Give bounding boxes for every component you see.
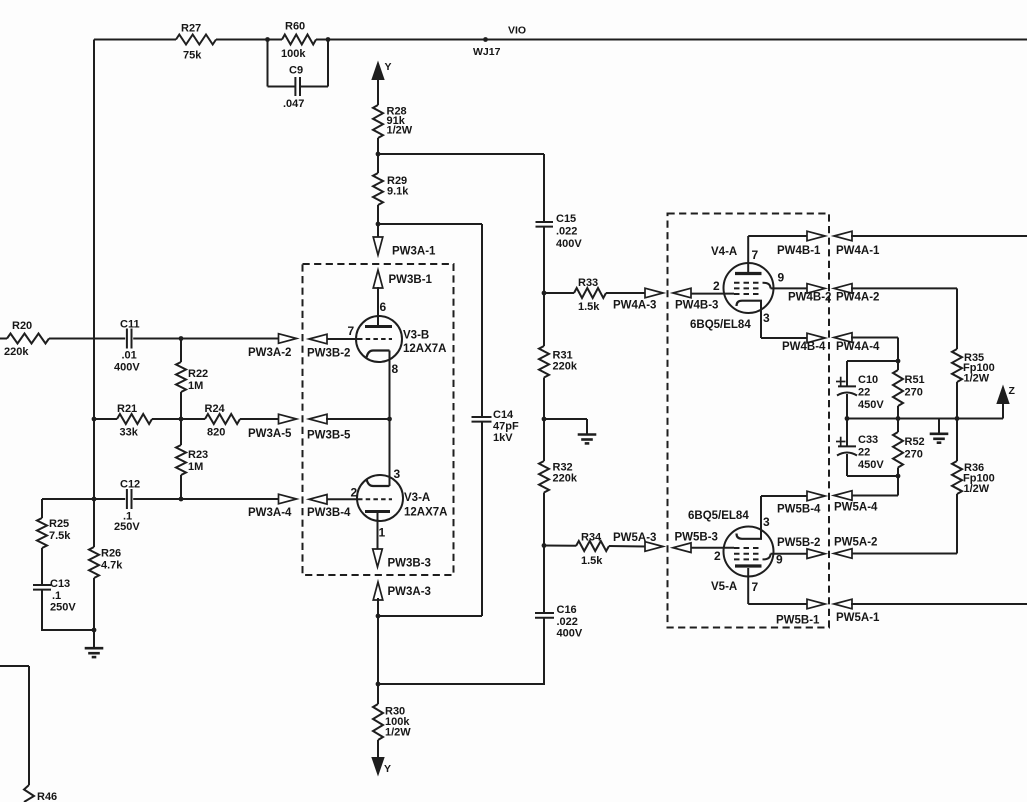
resistor R35 — [952, 349, 962, 382]
svg-text:R46: R46 — [37, 791, 57, 802]
wire V3-B cathode lead — [389, 351, 391, 420]
wire R32 to R34 junction — [543, 493, 545, 547]
resistor R32 — [539, 461, 549, 493]
wire R22 to R21 row — [180, 392, 182, 419]
wire C11 to PW3A-2 arrow — [133, 338, 280, 340]
tube V5-A circle — [724, 527, 774, 577]
svg-text:PW4A-2: PW4A-2 — [836, 292, 879, 304]
wire to PW5A-4 — [897, 476, 899, 496]
svg-text:1/2W: 1/2W — [385, 727, 411, 739]
svg-text:VIO: VIO — [508, 25, 526, 37]
tube V3-B cathode — [367, 351, 390, 358]
node cathode junction — [387, 417, 392, 422]
wire junction to C15 column — [378, 153, 544, 155]
node R34 junction — [542, 543, 547, 548]
svg-text:PW5A-1: PW5A-1 — [836, 612, 880, 624]
svg-text:75k: 75k — [183, 50, 202, 62]
wire to C16 — [543, 546, 545, 614]
wire left rail vertical — [93, 40, 95, 548]
svg-text:PW3A-2: PW3A-2 — [248, 347, 291, 359]
resistor R46 — [24, 785, 34, 802]
tube V3-A circle — [357, 475, 403, 521]
node R28 R29 junction — [376, 152, 381, 157]
resistor R51 — [897, 361, 899, 370]
wire C15 column top — [543, 154, 545, 222]
svg-text:PW3B-5: PW3B-5 — [307, 430, 351, 442]
svg-text:820: 820 — [207, 427, 225, 439]
connector PW5A-3 — [645, 542, 663, 552]
svg-text:PW4A-4: PW4A-4 — [836, 341, 880, 353]
svg-text:1M: 1M — [188, 461, 203, 473]
node ground junction — [542, 417, 547, 422]
svg-text:1.5k: 1.5k — [581, 555, 603, 567]
connector PW3A-3 — [373, 582, 383, 600]
svg-text:1/2W: 1/2W — [387, 125, 413, 137]
svg-text:PW5B-1: PW5B-1 — [776, 615, 820, 627]
wire V4-A cathode lead — [760, 301, 762, 338]
wire to PW3A-1 arrow — [377, 224, 379, 241]
svg-text:R27: R27 — [181, 23, 201, 35]
svg-text:220k: 220k — [4, 346, 29, 358]
svg-text:PW4A-1: PW4A-1 — [836, 245, 880, 257]
resistor R31 — [539, 346, 549, 378]
connector PW3B-4 — [309, 495, 327, 505]
resistor R21 — [117, 414, 152, 424]
resistor R29 — [373, 173, 383, 205]
svg-text:7: 7 — [348, 324, 355, 338]
wire R24 to PW3A-5 arrow — [240, 418, 280, 420]
wire V3-A grid lead — [326, 498, 358, 500]
wire C10 bottom — [846, 394, 848, 419]
svg-text:220k: 220k — [553, 473, 578, 485]
wire R34 to PW5A-3 — [609, 545, 647, 548]
connector PW3A-4 — [279, 494, 297, 504]
svg-text:.01: .01 — [122, 350, 137, 362]
wire V5-A cathode lead — [760, 496, 762, 539]
net Y bottom arrow — [377, 740, 379, 758]
svg-text:1M: 1M — [188, 380, 203, 392]
svg-text:PW5B-3: PW5B-3 — [675, 532, 718, 544]
net Z arrow — [997, 386, 1009, 404]
wire left rail to ground — [93, 578, 95, 631]
node R29 C14 junction — [376, 222, 381, 227]
resistor R26 — [89, 547, 99, 578]
tube V4-A circle — [724, 263, 774, 313]
resistor R24 — [205, 414, 240, 424]
svg-text:V3-A: V3-A — [404, 492, 430, 504]
svg-text:R52: R52 — [905, 436, 925, 448]
wire ground stub — [544, 418, 587, 420]
wire V5-A plate lead — [747, 568, 749, 604]
svg-text:2: 2 — [713, 279, 720, 293]
node R60 left junction — [265, 37, 270, 42]
svg-text:R21: R21 — [117, 403, 137, 415]
wire R31 to gnd junction — [543, 378, 545, 420]
node mid row junction R35 — [955, 416, 960, 421]
tube V5-A cathode — [737, 534, 763, 539]
wire mid row — [847, 418, 1003, 420]
wire C15 to R33 junction — [543, 227, 545, 293]
wire V4-A plate lead — [747, 236, 749, 272]
svg-text:400V: 400V — [114, 362, 140, 374]
wire C12 to PW3A-4 arrow — [133, 498, 280, 500]
svg-text:450V: 450V — [858, 459, 884, 471]
connector PW3B-3 — [373, 549, 383, 567]
svg-text:3: 3 — [763, 311, 770, 325]
capacitor C11 — [126, 329, 128, 349]
connector PW5A-1 — [834, 599, 852, 609]
wire C16 bottom lead — [543, 618, 545, 685]
tube V3-A plate — [365, 510, 390, 513]
svg-text:PW5B-4: PW5B-4 — [777, 504, 821, 516]
svg-text:PW3B-3: PW3B-3 — [388, 558, 431, 570]
ground center — [578, 433, 597, 436]
node R23 C12 junction — [179, 497, 184, 502]
svg-text:R51: R51 — [905, 374, 925, 386]
svg-text:6BQ5/EL84: 6BQ5/EL84 — [688, 510, 749, 522]
node C10 R51 top junction — [896, 359, 901, 364]
connector PW3B-1 — [373, 270, 383, 288]
wire PW4A-4 to C10 branch — [851, 337, 898, 339]
wire center column down — [377, 616, 379, 684]
svg-text:3: 3 — [763, 515, 770, 529]
resistor R28 — [373, 105, 383, 138]
node R30 junction — [376, 682, 381, 687]
svg-text:450V: 450V — [858, 399, 884, 411]
svg-text:C12: C12 — [120, 479, 140, 491]
svg-text:PW3B-2: PW3B-2 — [307, 348, 350, 360]
node left rail R21 junction — [92, 417, 97, 422]
wire R29 top lead — [377, 154, 379, 173]
wire junction to C14 column — [378, 223, 482, 225]
svg-text:9.1k: 9.1k — [387, 186, 409, 198]
svg-text:C9: C9 — [289, 65, 303, 77]
svg-text:7: 7 — [752, 248, 759, 262]
wire junction to C14 bottom — [378, 615, 482, 617]
svg-text:.1: .1 — [52, 590, 61, 602]
node mid row junction left — [845, 416, 850, 421]
resistor R23 — [176, 445, 186, 475]
svg-text:PW3B-1: PW3B-1 — [389, 274, 433, 286]
svg-text:220k: 220k — [553, 361, 578, 373]
tube V3-A grid — [358, 498, 392, 500]
svg-text:6: 6 — [380, 300, 387, 314]
svg-text:12AX7A: 12AX7A — [403, 343, 446, 355]
resistor R33 — [574, 288, 606, 298]
capacitor C9 — [267, 40, 269, 87]
wire bottom row — [847, 475, 898, 477]
svg-text:12AX7A: 12AX7A — [404, 507, 447, 519]
wire R25 to C13 — [41, 548, 43, 585]
connector PW4B-4 — [807, 333, 825, 343]
svg-text:R26: R26 — [101, 548, 121, 560]
wire V5-A grid9 hook — [763, 554, 771, 560]
svg-text:PW3A-5: PW3A-5 — [248, 428, 292, 440]
svg-text:Z: Z — [1009, 385, 1016, 397]
svg-text:47pF: 47pF — [493, 421, 519, 433]
tube V3-B grid — [358, 338, 392, 340]
node R60 right junction — [326, 37, 331, 42]
svg-text:PW5A-2: PW5A-2 — [834, 537, 877, 549]
svg-text:1.5k: 1.5k — [578, 301, 600, 313]
wire R25 top lead — [41, 499, 43, 518]
wire R36 to PW5A-2 — [956, 494, 958, 554]
wire top rail left segment — [94, 39, 176, 41]
svg-text:100k: 100k — [281, 48, 306, 60]
net Y top arrow — [372, 62, 384, 80]
wire R22 top lead — [180, 339, 182, 363]
svg-text:PW4B-1: PW4B-1 — [777, 245, 821, 257]
svg-text:PW3A-4: PW3A-4 — [248, 507, 292, 519]
svg-text:PW5A-3: PW5A-3 — [613, 532, 656, 544]
ground left — [93, 630, 95, 648]
svg-text:R20: R20 — [12, 320, 32, 332]
capacitor C16 — [535, 612, 554, 614]
svg-text:Y: Y — [385, 61, 392, 73]
connector PW4A-4 — [834, 333, 852, 343]
wire top to C10 — [847, 360, 898, 362]
svg-text:250V: 250V — [114, 521, 140, 533]
wire R46 branch — [0, 665, 29, 667]
svg-text:1/2W: 1/2W — [964, 483, 990, 495]
node left rail C12 junction — [92, 497, 97, 502]
wire V4-A grid9 hook — [763, 283, 771, 289]
resistor R30 — [377, 684, 379, 704]
svg-text:PW4B-3: PW4B-3 — [675, 300, 718, 312]
wire C13 to bottom — [41, 590, 43, 631]
enclosure V4 V5 dashed box — [668, 214, 830, 628]
wire R33 lead — [544, 292, 574, 294]
wire V4-A grid2 lead — [691, 293, 735, 295]
svg-text:.022: .022 — [556, 226, 577, 238]
resistor R20 — [7, 334, 49, 344]
tube V5-A grids — [734, 547, 762, 549]
wire R21 lead — [94, 418, 117, 420]
svg-text:PW4B-2: PW4B-2 — [788, 292, 831, 304]
wire R20 to C11 — [49, 338, 125, 340]
svg-text:3: 3 — [394, 467, 401, 481]
node bottom junction — [896, 474, 901, 479]
svg-text:C14: C14 — [493, 409, 514, 421]
node C14 bottom junction — [376, 614, 381, 619]
svg-text:PW3A-3: PW3A-3 — [388, 586, 431, 598]
resistor R34 — [576, 541, 609, 551]
svg-text:C16: C16 — [557, 604, 577, 616]
svg-text:C10: C10 — [858, 374, 878, 386]
svg-text:4.7k: 4.7k — [101, 560, 123, 572]
svg-text:.022: .022 — [557, 616, 578, 628]
wire R29 to junction — [377, 205, 379, 224]
wire C14 bottom lead — [481, 422, 483, 616]
resistor R52 — [897, 419, 899, 433]
tube V3-B circle — [356, 316, 402, 362]
svg-text:1kV: 1kV — [493, 432, 513, 444]
resistor R27 — [176, 35, 216, 45]
wire R28 to junction — [377, 138, 379, 155]
connector PW3B-5 — [309, 414, 327, 424]
svg-text:.047: .047 — [283, 98, 304, 110]
ground right — [938, 419, 940, 434]
svg-text:33k: 33k — [120, 427, 139, 439]
wire R33 to PW4A-3 — [606, 292, 647, 294]
svg-text:PW5B-2: PW5B-2 — [777, 537, 820, 549]
svg-text:400V: 400V — [557, 628, 583, 640]
connector PW3B-2 — [309, 334, 327, 344]
node mid row junction R51 — [896, 416, 901, 421]
resistor R60 — [282, 35, 316, 45]
wire C14 top lead — [481, 224, 483, 417]
wire PW5A-1 to edge — [851, 603, 1027, 605]
tube V4-A plate — [735, 272, 762, 275]
svg-text:270: 270 — [905, 387, 923, 399]
connector PW3A-1 — [373, 237, 383, 255]
node WJ17 — [483, 37, 488, 42]
connector PW5A-2 — [834, 549, 852, 559]
resistor R25 — [37, 518, 47, 548]
svg-text:R22: R22 — [188, 368, 208, 380]
wire PW3B-5 to cathode column — [326, 418, 390, 420]
svg-text:R34: R34 — [581, 532, 602, 544]
svg-text:9: 9 — [778, 271, 785, 285]
wire V3-A plate lead — [377, 513, 379, 551]
wire V3-B grid lead — [326, 338, 358, 340]
tube V3-A cathode — [367, 479, 390, 486]
capacitor C10 — [838, 385, 856, 387]
wire R23 to C12 row — [180, 475, 182, 499]
svg-text:C11: C11 — [120, 319, 140, 331]
wire R23 top lead — [180, 419, 182, 445]
tube V5-A plate — [735, 564, 762, 567]
svg-text:400V: 400V — [556, 238, 582, 250]
svg-text:PW4A-3: PW4A-3 — [613, 300, 656, 312]
wire R21 to R24 — [152, 418, 205, 420]
svg-text:PW5A-4: PW5A-4 — [834, 502, 878, 514]
svg-text:R33: R33 — [578, 277, 598, 289]
svg-text:1/2W: 1/2W — [964, 373, 990, 385]
wire R35 to junction — [956, 382, 958, 419]
connector PW4A-2 — [834, 284, 852, 294]
wire PW3A-3 to junction — [377, 598, 379, 616]
capacitor C15 — [536, 221, 554, 223]
svg-text:Y: Y — [384, 763, 391, 775]
svg-text:7.5k: 7.5k — [49, 530, 71, 542]
wire PW3B-1 to V3-B plate — [377, 287, 379, 327]
svg-text:270: 270 — [905, 449, 923, 461]
wire R34 lead — [544, 545, 576, 547]
node R21 R24 junction — [179, 417, 184, 422]
svg-text:R23: R23 — [188, 449, 208, 461]
connector PW3A-2 — [279, 334, 297, 344]
wire PW4A-1 to edge — [851, 235, 1027, 237]
connector PW5B-1 — [807, 599, 825, 609]
tube V4-A cathode — [737, 301, 763, 306]
svg-text:22: 22 — [858, 387, 870, 399]
capacitor C13 — [33, 584, 51, 586]
svg-text:6BQ5/EL84: 6BQ5/EL84 — [690, 319, 751, 331]
wire top rail right segment — [316, 39, 1027, 41]
wire V5-A grid2 lead — [691, 547, 735, 549]
wire cathode column down — [389, 419, 391, 486]
svg-text:C15: C15 — [556, 213, 576, 225]
capacitor C14 — [472, 416, 492, 418]
svg-text:V4-A: V4-A — [711, 246, 737, 258]
wire R25 branch to C12 — [42, 498, 125, 500]
connector PW5B-3 — [673, 543, 691, 553]
svg-text:WJ17: WJ17 — [473, 46, 501, 58]
connector PW5B-2 — [807, 549, 825, 559]
svg-text:7: 7 — [752, 580, 759, 594]
tube V4-A grids — [734, 282, 763, 284]
tube V3-B plate — [365, 325, 392, 328]
connector PW4B-1 — [807, 231, 825, 241]
wire junction to C16 bottom — [378, 683, 544, 685]
resistor R22 — [176, 362, 186, 392]
svg-text:250V: 250V — [50, 602, 76, 614]
resistor R36 — [956, 419, 958, 462]
svg-text:C13: C13 — [50, 578, 70, 590]
enclosure V3 dashed box — [303, 264, 454, 575]
node R33 junction — [542, 291, 547, 296]
svg-text:PW3B-4: PW3B-4 — [307, 507, 351, 519]
capacitor C33 — [846, 419, 848, 447]
connector PW5A-4 — [834, 491, 852, 501]
svg-text:PW3A-1: PW3A-1 — [392, 246, 436, 258]
svg-text:2: 2 — [351, 486, 358, 500]
connector PW4A-1 — [834, 231, 852, 241]
svg-text:V3-B: V3-B — [403, 330, 429, 342]
wire R27 to R60 — [216, 39, 282, 41]
svg-text:2: 2 — [714, 549, 721, 563]
svg-text:R60: R60 — [285, 21, 305, 33]
wire R20 lead-in — [0, 338, 7, 340]
connector PW4A-3 — [645, 288, 663, 298]
svg-text:22: 22 — [858, 447, 870, 459]
capacitor C12 — [126, 489, 128, 509]
connector PW5B-4 — [807, 491, 825, 501]
wire PW4A-2 to R35 — [851, 287, 957, 289]
svg-text:R25: R25 — [49, 518, 69, 530]
connector PW3A-5 — [279, 414, 297, 424]
wire R31 top lead — [543, 293, 545, 346]
svg-text:C33: C33 — [858, 434, 878, 446]
node R26 bottom junction — [92, 628, 97, 633]
wire R32 top lead — [543, 419, 545, 461]
svg-text:8: 8 — [392, 362, 399, 376]
wire Z stub — [957, 418, 1003, 420]
connector PW4B-2 — [807, 284, 825, 294]
svg-text:1: 1 — [379, 526, 386, 540]
connector PW4B-3 — [673, 288, 691, 298]
node C11 R22 junction — [179, 336, 184, 341]
svg-text:R24: R24 — [205, 403, 226, 415]
svg-text:V5-A: V5-A — [711, 581, 737, 593]
svg-text:PW4B-4: PW4B-4 — [782, 341, 826, 353]
